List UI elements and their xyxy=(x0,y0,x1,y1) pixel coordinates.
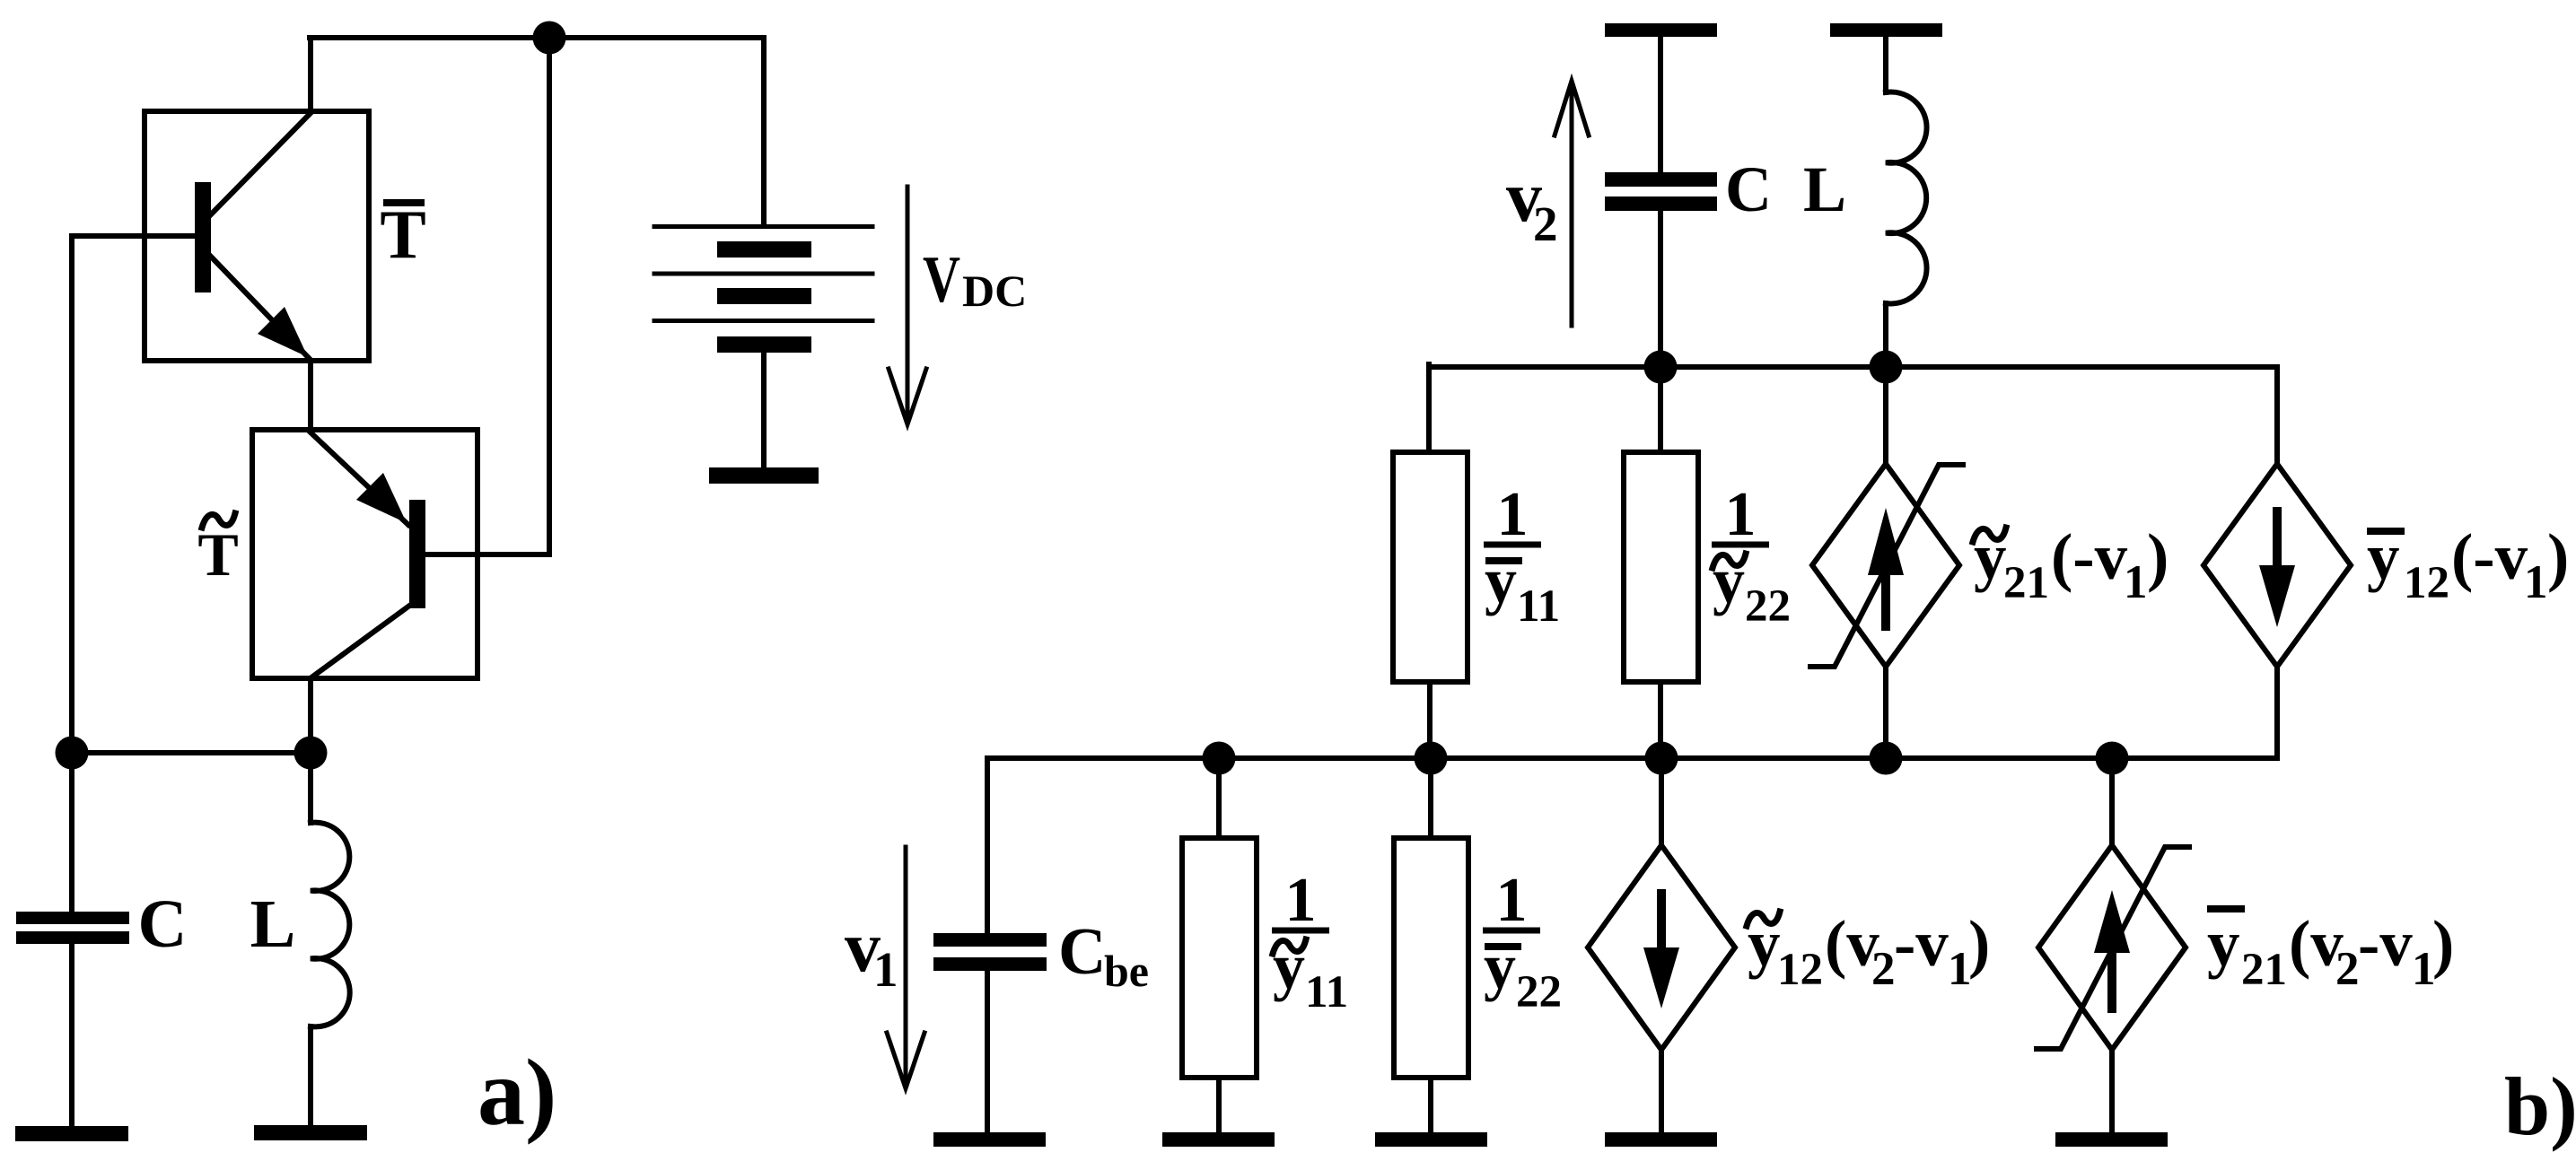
capacitor Cbe top lead xyxy=(985,758,990,933)
arrow VDC xyxy=(906,187,910,420)
svg-text:b): b) xyxy=(2504,1061,2576,1152)
label Cbe xyxy=(1058,915,1149,996)
wire top rail a) xyxy=(310,35,764,40)
svg-text:11: 11 xyxy=(1517,581,1560,632)
inductor L b) top lead xyxy=(1883,37,1888,92)
svg-text:a): a) xyxy=(478,1040,556,1145)
svg-text:22: 22 xyxy=(1516,967,1562,1017)
source y12 bot bottom lead xyxy=(1659,1050,1664,1132)
svg-text:y: y xyxy=(1484,930,1516,1002)
label y12(v2-v1) xyxy=(1748,907,1990,995)
resistor 1/y11 box xyxy=(1393,452,1468,682)
svg-text:(-v: (-v xyxy=(2451,520,2528,593)
transistor T2 collector arrow xyxy=(356,473,407,523)
svg-text:V: V xyxy=(923,243,960,317)
ground top L b) xyxy=(1830,23,1942,37)
svg-text:1: 1 xyxy=(2124,556,2148,608)
node v1 rail r2 xyxy=(1415,742,1448,775)
arrow v1 xyxy=(904,847,908,1084)
transistor T1 base bar xyxy=(195,182,211,292)
capacitor Cbe bottom lead xyxy=(985,971,990,1132)
transistor T1 emitter lead xyxy=(211,257,309,358)
svg-text:y: y xyxy=(1485,545,1517,616)
inductor L a) xyxy=(311,823,350,1027)
wire battery top xyxy=(761,38,767,226)
resistor 1/y11 bot lead xyxy=(1216,758,1222,838)
source y21 bot bottom lead xyxy=(2109,1050,2115,1132)
svg-text:1: 1 xyxy=(2524,556,2548,608)
resistor 1/y11 bottom lead xyxy=(1427,682,1433,758)
node a) bottom left xyxy=(56,737,89,770)
node v1 rail s1 xyxy=(1645,742,1678,775)
capacitor C b) bottom lead xyxy=(1658,211,1663,367)
svg-text:L: L xyxy=(1803,153,1846,225)
svg-text:22: 22 xyxy=(1745,581,1791,632)
arrow v2 xyxy=(1570,85,1574,326)
source y12 bot lead xyxy=(1659,758,1664,845)
ground under L a) xyxy=(254,1125,367,1140)
label 1/y11 top xyxy=(1484,480,1560,632)
svg-text:): ) xyxy=(2147,520,2169,593)
svg-text:be: be xyxy=(1104,946,1149,996)
svg-text:T: T xyxy=(380,196,425,273)
node a) bottom mid xyxy=(294,737,328,770)
transistor T2 box xyxy=(252,430,478,678)
transistor T2 emitter lead xyxy=(311,604,412,677)
wire left vertical a) xyxy=(69,236,74,753)
wire T2 base lead xyxy=(425,552,549,557)
node v2 rail C xyxy=(1644,351,1678,384)
node v2 rail L xyxy=(1870,351,1903,384)
svg-text:C: C xyxy=(1058,915,1106,989)
transistor T2 collector lead xyxy=(310,432,408,525)
source y12(v2-v1) diamond xyxy=(1588,845,1735,1050)
label y21 tilde xyxy=(1973,528,2006,542)
svg-text:-v: -v xyxy=(1894,907,1949,980)
svg-text:21: 21 xyxy=(2003,558,2049,608)
resistor 1/y22 bot lead xyxy=(1428,758,1433,838)
capacitor C b) top lead xyxy=(1658,37,1663,172)
label y12(-v1) xyxy=(2367,520,2569,608)
label 1/y22 top tilde xyxy=(1713,554,1746,568)
wire v2 rail xyxy=(1429,364,2277,370)
source y12 top right lead xyxy=(2274,367,2280,464)
svg-text:1: 1 xyxy=(1496,866,1528,935)
svg-text:2: 2 xyxy=(1871,943,1896,995)
source y12 bottom lead xyxy=(2274,667,2280,758)
wire right vertical from top node to T~ base xyxy=(547,38,552,554)
svg-text:L: L xyxy=(250,886,296,962)
ground under 1/y11 bot xyxy=(1162,1132,1275,1147)
svg-text:1: 1 xyxy=(1725,480,1757,549)
svg-text:C: C xyxy=(1725,153,1772,225)
wire T1 base lead xyxy=(72,233,195,239)
svg-text:11: 11 xyxy=(1305,967,1348,1017)
resistor 1/y11 top lead xyxy=(1426,364,1432,452)
wire v1 rail xyxy=(987,755,2277,761)
source y21 bot variable stroke xyxy=(2037,847,2189,1049)
capacitor C a) plates xyxy=(16,912,129,924)
capacitor Cbe plates xyxy=(933,933,1047,947)
resistor 1/y22 top bottom lead xyxy=(1658,682,1663,758)
svg-text:): ) xyxy=(2432,907,2454,980)
wire T1 collector to top rail xyxy=(308,38,313,111)
wire between T1 and T2 xyxy=(308,361,313,430)
svg-text:C: C xyxy=(138,886,188,962)
resistor 1/y22 top box xyxy=(1624,452,1698,682)
source y21 top lead xyxy=(1883,367,1888,464)
label 1/y11 bot tilde xyxy=(1273,939,1306,954)
svg-text:21: 21 xyxy=(2241,945,2287,995)
svg-text:y: y xyxy=(2367,520,2400,593)
resistor 1/y22 bot box xyxy=(1394,838,1468,1078)
svg-text:(-v: (-v xyxy=(2051,520,2128,593)
resistor 1/y22 bot bottom lead xyxy=(1428,1078,1433,1132)
transistor T2 base bar xyxy=(409,500,425,608)
svg-text:1: 1 xyxy=(873,942,898,997)
wire v1 rail right corner up xyxy=(2274,667,2280,758)
ground under Cbe xyxy=(933,1132,1046,1147)
label 1/y22 bot xyxy=(1483,866,1562,1017)
source y21(v2-v1) diamond xyxy=(2038,845,2186,1050)
svg-text:2: 2 xyxy=(2335,943,2360,995)
resistor 1/y22 top lead xyxy=(1658,367,1663,452)
capacitor C a) bottom lead xyxy=(69,944,74,1127)
wire battery bottom xyxy=(761,353,767,467)
ground under y12 bot xyxy=(1605,1132,1717,1147)
inductor L a) bottom lead xyxy=(308,1026,313,1126)
capacitor C b) plates xyxy=(1605,172,1717,187)
source y21 variable stroke xyxy=(1810,465,1963,667)
source y21 arrow xyxy=(1881,572,1890,626)
label y21(v2-v1) xyxy=(2207,905,2454,995)
wire a) bottom node xyxy=(72,750,311,755)
source y21(-v1) diamond xyxy=(1812,464,1959,667)
ground under 1/y22 bot xyxy=(1375,1132,1487,1147)
wire s2 up lead xyxy=(1883,667,1888,758)
svg-text:y: y xyxy=(2207,907,2240,980)
svg-text:2: 2 xyxy=(1533,196,1558,251)
source y21 bottom lead xyxy=(1883,667,1888,758)
node v1 rail r1 xyxy=(1203,742,1236,775)
resistor 1/y11 bot box xyxy=(1182,838,1257,1078)
label 1/y22 top xyxy=(1712,480,1791,632)
node v1 rail s2 xyxy=(1870,742,1903,775)
label y12 bot tilde xyxy=(1747,912,1780,926)
ground under C a) xyxy=(15,1126,128,1141)
ground under battery xyxy=(709,467,819,484)
source y12(-v1) diamond xyxy=(2204,464,2351,667)
transistor T1 emitter arrow xyxy=(258,307,308,357)
transistor T1 collector lead xyxy=(211,113,311,214)
svg-text:T: T xyxy=(197,520,238,589)
ground top C b) xyxy=(1605,23,1717,37)
source y21 bot lead xyxy=(2109,758,2115,845)
svg-text:12: 12 xyxy=(1777,945,1823,995)
node v1 rail s3 xyxy=(2096,742,2129,775)
svg-text:1: 1 xyxy=(1497,480,1529,549)
svg-text:): ) xyxy=(1968,907,1990,980)
label y21(-v1) xyxy=(1974,520,2169,608)
battery VDC plates xyxy=(654,224,872,229)
svg-text:12: 12 xyxy=(2404,558,2449,608)
label T2 tilde xyxy=(202,513,235,528)
inductor L b) bottom lead xyxy=(1883,303,1888,367)
svg-text:DC: DC xyxy=(962,266,1027,316)
inductor L b) xyxy=(1886,92,1927,304)
source y12 arrow xyxy=(2273,511,2282,566)
svg-text:-v: -v xyxy=(2358,907,2413,980)
resistor 1/y11 bot bottom lead xyxy=(1216,1078,1222,1132)
svg-text:1: 1 xyxy=(1285,866,1317,935)
capacitor C a) top lead xyxy=(69,753,74,912)
source y12 bot arrow xyxy=(1657,894,1666,948)
transistor T1 box xyxy=(145,111,369,361)
svg-text:): ) xyxy=(2547,520,2569,593)
wire T2 emitter down xyxy=(308,678,313,823)
source y21 bot arrow xyxy=(2107,954,2116,1008)
node top junction a) xyxy=(533,22,566,55)
label T1 overbar xyxy=(383,199,425,206)
ground under y21 bot xyxy=(2055,1132,2168,1147)
label 1/y11 bot xyxy=(1272,866,1348,1017)
